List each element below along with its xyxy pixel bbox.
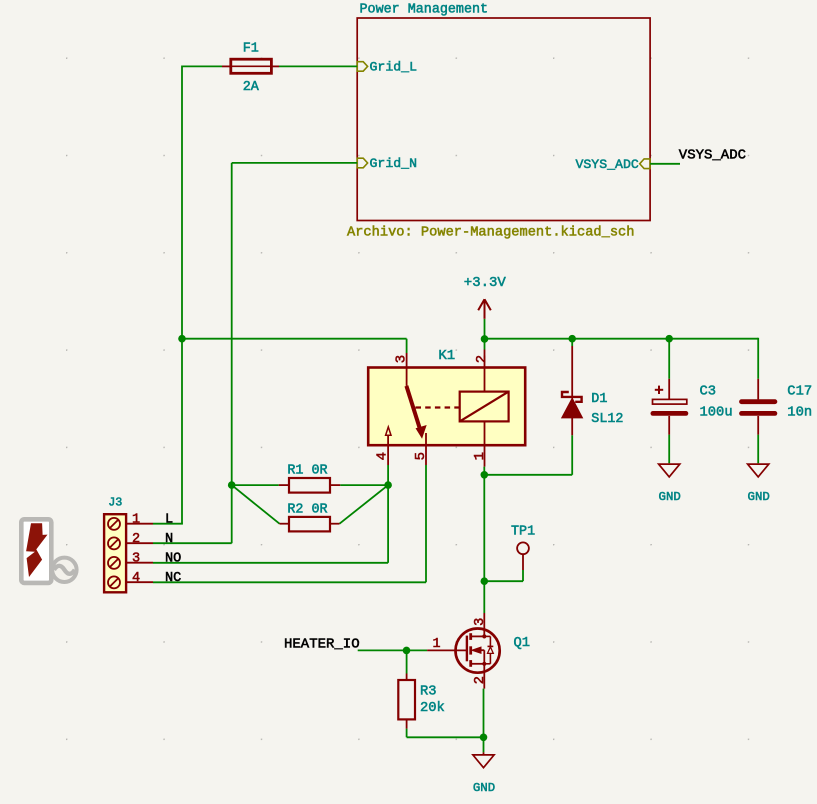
svg-text:HEATER_IO: HEATER_IO xyxy=(284,636,360,652)
svg-text:NO: NO xyxy=(165,552,181,567)
svg-text:3: 3 xyxy=(132,552,140,567)
svg-text:GND: GND xyxy=(659,490,681,504)
svg-text:100u: 100u xyxy=(700,406,733,421)
svg-text:L: L xyxy=(165,512,173,527)
svg-text:Archivo: Power-Management.kica: Archivo: Power-Management.kicad_sch xyxy=(347,226,634,241)
svg-text:Power Management: Power Management xyxy=(360,3,489,18)
svg-text:N: N xyxy=(165,532,173,547)
svg-text:2A: 2A xyxy=(243,80,260,95)
svg-text:SL12: SL12 xyxy=(591,412,623,427)
svg-text:1: 1 xyxy=(132,512,140,527)
svg-text:TP1: TP1 xyxy=(511,524,535,539)
svg-text:NC: NC xyxy=(165,571,181,586)
svg-text:2: 2 xyxy=(473,676,488,684)
svg-text:R2 0R: R2 0R xyxy=(287,502,327,517)
svg-text:GND: GND xyxy=(748,490,770,504)
svg-text:+3.3V: +3.3V xyxy=(464,275,507,291)
svg-text:3: 3 xyxy=(473,618,488,626)
svg-text:Grid_L: Grid_L xyxy=(370,60,418,75)
svg-text:3: 3 xyxy=(394,355,410,363)
svg-text:Grid_N: Grid_N xyxy=(370,156,417,171)
svg-text:VSYS_ADC: VSYS_ADC xyxy=(679,147,746,163)
svg-text:R1 0R: R1 0R xyxy=(287,464,327,479)
svg-text:4: 4 xyxy=(132,571,140,586)
svg-text:1: 1 xyxy=(432,637,440,652)
svg-text:2: 2 xyxy=(132,532,140,547)
svg-text:K1: K1 xyxy=(438,348,455,364)
svg-text:D1: D1 xyxy=(591,392,607,407)
svg-text:1: 1 xyxy=(472,452,488,460)
svg-text:2: 2 xyxy=(474,355,490,363)
svg-text:4: 4 xyxy=(375,452,391,460)
svg-text:C3: C3 xyxy=(700,385,717,400)
svg-text:10n: 10n xyxy=(787,406,812,421)
svg-text:R3: R3 xyxy=(420,685,437,700)
svg-text:Q1: Q1 xyxy=(514,636,531,651)
svg-text:J3: J3 xyxy=(108,495,122,509)
svg-text:C17: C17 xyxy=(787,385,812,400)
svg-text:VSYS_ADC: VSYS_ADC xyxy=(575,157,638,172)
svg-text:GND: GND xyxy=(473,781,495,795)
svg-text:20k: 20k xyxy=(420,700,445,716)
svg-text:5: 5 xyxy=(413,452,429,460)
svg-text:F1: F1 xyxy=(243,42,259,57)
